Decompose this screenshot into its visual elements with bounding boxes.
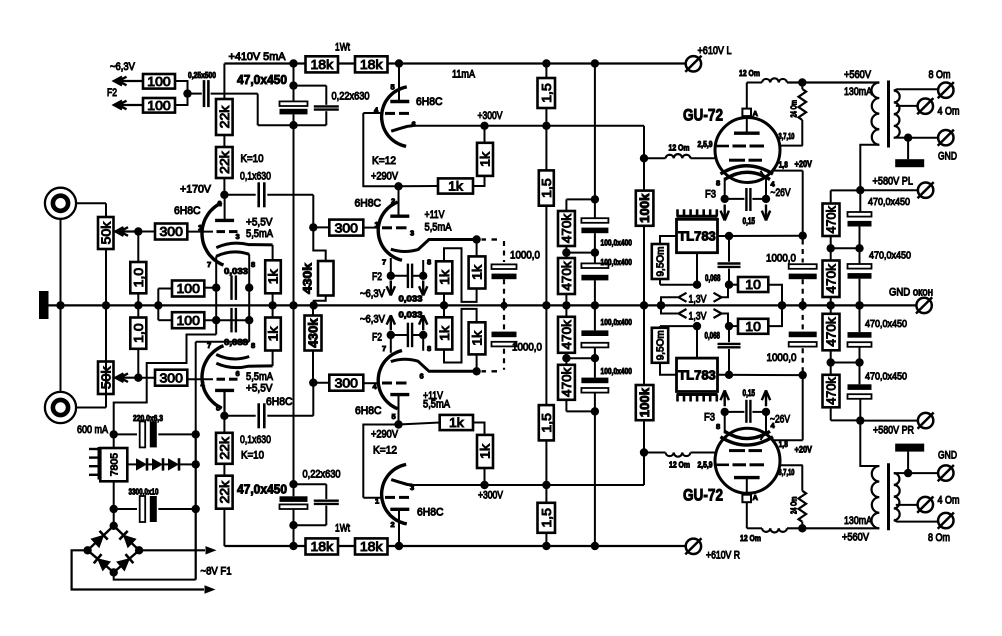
svg-text:12 Om: 12 Om — [669, 143, 690, 153]
svg-text:1k: 1k — [266, 326, 281, 341]
svg-text:3: 3 — [236, 232, 240, 241]
svg-text:600 mA: 600 mA — [77, 424, 109, 436]
svg-text:22k: 22k — [217, 436, 232, 459]
svg-text:~8V F1: ~8V F1 — [201, 566, 232, 578]
svg-text:5: 5 — [391, 83, 395, 92]
svg-text:3: 3 — [410, 483, 414, 492]
svg-text:7805: 7805 — [109, 453, 121, 477]
svg-text:A: A — [753, 493, 759, 502]
svg-text:5,5mA: 5,5mA — [423, 399, 451, 411]
svg-text:~26V: ~26V — [771, 187, 792, 199]
svg-text:4 Om: 4 Om — [938, 106, 960, 118]
svg-text:1,0: 1,0 — [131, 268, 146, 288]
svg-text:1k: 1k — [449, 415, 464, 430]
svg-text:6: 6 — [420, 372, 424, 381]
svg-text:100: 100 — [147, 98, 170, 113]
svg-text:0,033: 0,033 — [224, 266, 248, 276]
svg-text:470k: 470k — [825, 205, 839, 233]
svg-text:12 Om: 12 Om — [739, 68, 760, 78]
svg-text:+610V R: +610V R — [706, 550, 740, 562]
svg-text:2: 2 — [391, 197, 395, 206]
svg-text:0,22х630: 0,22х630 — [303, 469, 341, 481]
svg-text:100,0х400: 100,0х400 — [601, 257, 633, 267]
svg-text:TL783: TL783 — [678, 229, 716, 244]
svg-text:12 Om: 12 Om — [740, 533, 761, 543]
svg-text:8: 8 — [427, 344, 431, 353]
svg-text:1: 1 — [198, 223, 202, 232]
svg-text:0,033: 0,033 — [399, 294, 423, 304]
svg-text:100,0х400: 100,0х400 — [601, 238, 633, 248]
svg-text:470k: 470k — [825, 263, 839, 293]
svg-text:5,5mA: 5,5mA — [425, 222, 453, 234]
svg-text:1,8: 1,8 — [779, 161, 788, 170]
svg-text:430k: 430k — [301, 263, 315, 294]
svg-text:1k: 1k — [437, 269, 452, 284]
svg-text:8: 8 — [427, 258, 431, 267]
svg-text:24 Om: 24 Om — [789, 100, 799, 118]
svg-text:1,5: 1,5 — [539, 508, 554, 528]
svg-text:470k: 470k — [825, 317, 839, 347]
svg-text:0,033: 0,033 — [399, 310, 423, 320]
svg-text:F2: F2 — [372, 271, 382, 283]
svg-text:100,0х400: 100,0х400 — [601, 317, 633, 327]
svg-text:470k: 470k — [560, 213, 574, 243]
svg-text:8 Om: 8 Om — [928, 532, 950, 544]
svg-text:K=10: K=10 — [241, 153, 264, 165]
svg-text:1k: 1k — [478, 443, 493, 458]
svg-text:130mA: 130mA — [844, 515, 873, 527]
svg-text:7: 7 — [207, 341, 211, 350]
svg-text:12 Om: 12 Om — [669, 460, 690, 470]
svg-text:+5,5V: +5,5V — [246, 383, 273, 395]
svg-text:6H8C: 6H8C — [355, 405, 382, 417]
svg-text:6H8C: 6H8C — [355, 198, 382, 210]
svg-text:10: 10 — [745, 277, 761, 292]
svg-text:24 Om: 24 Om — [789, 496, 799, 514]
svg-text:+290V: +290V — [371, 429, 399, 441]
svg-text:F3: F3 — [705, 189, 716, 201]
svg-text:300: 300 — [335, 220, 358, 235]
svg-text:1,5: 1,5 — [539, 83, 554, 103]
svg-text:GU-72: GU-72 — [683, 486, 723, 505]
svg-text:300: 300 — [159, 370, 182, 385]
svg-text:6H8C: 6H8C — [416, 96, 443, 108]
svg-text:8: 8 — [716, 422, 720, 431]
svg-text:F2: F2 — [372, 332, 382, 344]
svg-text:47,0х450: 47,0х450 — [237, 73, 287, 87]
svg-text:22k: 22k — [217, 480, 232, 503]
svg-text:1: 1 — [375, 220, 379, 229]
svg-text:7: 7 — [382, 344, 386, 353]
svg-text:+610V L: +610V L — [698, 45, 732, 57]
svg-text:GND окон: GND окон — [889, 287, 933, 299]
svg-text:2,5,9: 2,5,9 — [698, 461, 713, 470]
svg-text:100: 100 — [176, 313, 199, 328]
svg-text:7: 7 — [382, 258, 386, 267]
svg-text:+560V: +560V — [844, 69, 872, 81]
svg-text:470,0х450: 470,0х450 — [865, 318, 907, 330]
svg-text:1000,0: 1000,0 — [512, 342, 542, 354]
svg-text:0,22х630: 0,22х630 — [332, 91, 370, 103]
svg-text:1k: 1k — [448, 179, 463, 194]
svg-text:1k: 1k — [470, 264, 485, 279]
svg-text:+580V PL: +580V PL — [873, 176, 914, 188]
svg-text:5: 5 — [392, 412, 396, 421]
svg-text:470k: 470k — [560, 261, 574, 291]
svg-text:1000,0: 1000,0 — [510, 250, 540, 262]
svg-text:K=12: K=12 — [373, 445, 397, 457]
svg-text:3,7,10: 3,7,10 — [779, 468, 795, 477]
svg-text:470k: 470k — [560, 367, 574, 397]
svg-text:1k: 1k — [470, 330, 485, 345]
svg-text:F3: F3 — [704, 412, 715, 424]
svg-text:470,0х450: 470,0х450 — [869, 250, 911, 262]
svg-text:1,5: 1,5 — [539, 178, 554, 198]
svg-text:0,25х500: 0,25х500 — [188, 70, 216, 80]
svg-text:4 Om: 4 Om — [938, 495, 960, 507]
svg-text:0,1х630: 0,1х630 — [240, 171, 271, 183]
svg-text:3,7,10: 3,7,10 — [779, 132, 795, 141]
svg-text:5: 5 — [216, 404, 220, 413]
svg-text:18k: 18k — [360, 539, 383, 554]
svg-text:+300V: +300V — [478, 110, 504, 122]
svg-text:TL783: TL783 — [678, 368, 716, 383]
svg-text:2,5,9: 2,5,9 — [698, 140, 713, 149]
svg-text:+5,5V: +5,5V — [246, 217, 273, 229]
svg-text:1k: 1k — [437, 325, 452, 340]
svg-text:1: 1 — [375, 497, 379, 506]
svg-text:3: 3 — [410, 229, 414, 238]
svg-text:470,0х450: 470,0х450 — [868, 196, 910, 208]
svg-text:0,068: 0,068 — [705, 273, 721, 283]
svg-text:5,5mA: 5,5mA — [246, 371, 274, 383]
svg-text:GND: GND — [938, 450, 957, 462]
svg-text:+580V PR: +580V PR — [873, 425, 914, 437]
svg-text:1k: 1k — [266, 269, 281, 284]
svg-text:50k: 50k — [98, 221, 113, 244]
svg-text:8: 8 — [251, 341, 255, 350]
svg-text:470k: 470k — [560, 319, 574, 349]
svg-text:9,5Om: 9,5Om — [656, 330, 667, 360]
svg-text:1Wt: 1Wt — [335, 42, 350, 54]
svg-text:10: 10 — [745, 319, 761, 334]
svg-text:+290V: +290V — [371, 171, 399, 183]
svg-text:1,3V: 1,3V — [689, 311, 708, 323]
svg-text:8: 8 — [716, 179, 720, 188]
svg-text:+20V: +20V — [795, 159, 813, 170]
svg-text:A: A — [753, 109, 759, 118]
svg-text:5,5mA: 5,5mA — [246, 228, 274, 240]
svg-text:1,5: 1,5 — [539, 413, 554, 433]
svg-text:100,0х400: 100,0х400 — [601, 366, 633, 376]
svg-text:300: 300 — [159, 224, 182, 239]
svg-text:0,068: 0,068 — [705, 331, 721, 341]
svg-text:GU-72: GU-72 — [683, 106, 723, 125]
svg-text:+20V: +20V — [795, 445, 813, 456]
svg-text:18k: 18k — [310, 539, 333, 554]
svg-text:100k: 100k — [638, 388, 652, 417]
svg-text:6H8C: 6H8C — [417, 507, 444, 519]
svg-text:100: 100 — [176, 281, 199, 296]
svg-text:0,15: 0,15 — [743, 216, 756, 226]
svg-text:2: 2 — [391, 520, 395, 529]
svg-text:100k: 100k — [638, 194, 652, 223]
svg-text:+11V: +11V — [425, 209, 446, 221]
svg-text:47,0х450: 47,0х450 — [237, 483, 287, 497]
svg-text:~6,3V: ~6,3V — [110, 61, 136, 73]
svg-text:K=12: K=12 — [372, 155, 396, 167]
svg-text:8: 8 — [251, 260, 255, 269]
svg-text:3300,0х10: 3300,0х10 — [129, 487, 159, 497]
svg-text:470,0х450: 470,0х450 — [865, 371, 907, 383]
svg-text:1,3V: 1,3V — [689, 294, 708, 306]
svg-text:+560V: +560V — [842, 532, 870, 544]
svg-text:8 Om: 8 Om — [929, 69, 951, 81]
svg-text:9,5Om: 9,5Om — [656, 247, 667, 277]
svg-text:1Wt: 1Wt — [335, 523, 350, 535]
svg-text:6H8C: 6H8C — [266, 396, 293, 408]
svg-text:1,0: 1,0 — [131, 323, 146, 343]
svg-text:470k: 470k — [825, 376, 839, 404]
svg-text:430k: 430k — [307, 318, 321, 347]
svg-text:100: 100 — [147, 74, 170, 89]
svg-text:+170V: +170V — [180, 184, 212, 196]
svg-text:1000,0: 1000,0 — [766, 253, 796, 265]
svg-text:+300V: +300V — [478, 490, 504, 502]
svg-text:F2: F2 — [107, 87, 117, 99]
svg-text:~6,3V: ~6,3V — [360, 314, 386, 326]
svg-text:22k: 22k — [217, 105, 232, 128]
svg-text:6: 6 — [236, 369, 240, 378]
svg-text:7: 7 — [207, 260, 211, 269]
svg-text:0,15: 0,15 — [743, 388, 756, 398]
svg-text:0,033: 0,033 — [224, 337, 248, 347]
svg-text:+410V 5mA: +410V 5mA — [229, 51, 287, 63]
svg-text:130mA: 130mA — [844, 86, 873, 98]
svg-text:2: 2 — [218, 199, 222, 208]
svg-text:1k: 1k — [478, 151, 493, 166]
svg-text:300: 300 — [335, 375, 358, 390]
svg-text:0,1х630: 0,1х630 — [240, 434, 271, 446]
svg-text:18k: 18k — [360, 57, 383, 72]
svg-text:6H8C: 6H8C — [174, 205, 201, 217]
svg-text:220,0х6,3: 220,0х6,3 — [133, 413, 163, 423]
svg-text:~6,3V: ~6,3V — [360, 288, 386, 300]
svg-text:18k: 18k — [310, 57, 333, 72]
svg-text:22k: 22k — [217, 151, 232, 174]
svg-text:6: 6 — [412, 120, 416, 129]
svg-text:K=10: K=10 — [241, 450, 264, 462]
svg-text:11mA: 11mA — [452, 69, 476, 81]
svg-text:1000,0: 1000,0 — [767, 352, 797, 364]
svg-text:GND: GND — [938, 151, 957, 163]
svg-text:1,8: 1,8 — [779, 440, 788, 449]
